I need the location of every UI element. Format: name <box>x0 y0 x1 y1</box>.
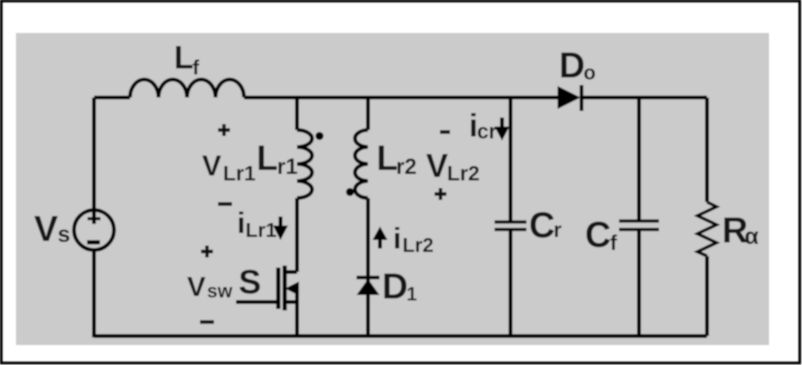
wire: Ro branch top <box>705 98 709 203</box>
wire: MOSFET source to bottom rail <box>295 287 299 337</box>
svg-text:f: f <box>610 232 618 255</box>
wire: left vertical above Vs <box>92 98 96 225</box>
minus mark VLr1 <box>218 202 232 206</box>
svg-text:S: S <box>239 264 262 302</box>
svg-text:L: L <box>377 139 398 178</box>
diode D1 cathode bar <box>357 276 380 280</box>
resistor Ra zigzag <box>698 202 717 256</box>
wire: Cr branch top <box>509 98 513 222</box>
svg-text:L: L <box>257 139 278 178</box>
svg-text:D: D <box>559 45 585 86</box>
MOSFET S channel bar <box>283 266 287 311</box>
svg-text:L: L <box>174 40 194 76</box>
diode Do cathode bar <box>580 85 584 111</box>
svg-text:C: C <box>585 214 611 255</box>
wire: Lr2 branch to D1 and bottom rail <box>366 198 370 336</box>
inductor Lr2 (secondary winding) <box>355 130 368 198</box>
svg-text:r2: r2 <box>396 154 417 179</box>
current arrow iLr2 (up) <box>378 238 382 249</box>
svg-text:i: i <box>237 207 245 240</box>
inductor Lf <box>130 80 244 98</box>
diode D1 triangle <box>357 279 380 295</box>
MOSFET S body arrow <box>285 282 299 296</box>
current arrow iLr1 (down) <box>279 217 283 228</box>
wire: left vertical below Vs <box>92 250 96 338</box>
wire: Lr1 branch to MOSFET drain <box>295 198 299 272</box>
svg-text:cr: cr <box>477 121 497 144</box>
wire: Lr1 branch top <box>295 98 299 131</box>
wire: bottom rail <box>94 334 707 338</box>
MOSFET S gate bar <box>276 268 280 310</box>
svg-text:r: r <box>554 219 562 242</box>
plus mark VLr2 <box>435 188 447 200</box>
svg-text:s: s <box>58 221 71 247</box>
wire: Cf branch bottom <box>637 231 641 337</box>
Vs plus mark <box>88 217 101 220</box>
wire: Cf branch top <box>637 98 641 221</box>
svg-text:Lr1: Lr1 <box>223 163 256 186</box>
transformer polarity dot Lr2 <box>346 188 354 196</box>
svg-text:f: f <box>193 58 200 80</box>
svg-text:i: i <box>393 223 401 256</box>
capacitor Cf plates <box>619 221 659 230</box>
wire: top rail from Do to right corner <box>580 96 707 100</box>
voltage source Vs circle <box>74 210 114 250</box>
MOSFET S drain lead <box>285 270 298 274</box>
svg-text:V: V <box>34 208 58 249</box>
capacitor Cr plates <box>495 222 527 230</box>
svg-text:C: C <box>529 205 555 246</box>
diode Do triangle <box>558 86 581 109</box>
Vs minus mark <box>87 240 100 244</box>
current arrow icr (down) <box>500 118 504 129</box>
minus mark VLr2 <box>440 130 450 134</box>
wire: Lr2 branch top <box>366 98 370 131</box>
svg-text:o: o <box>584 63 596 85</box>
wire: top rail from Lf to Do <box>244 96 558 100</box>
svg-text:α: α <box>745 223 759 249</box>
svg-text:D: D <box>382 266 408 307</box>
wire: top rail left of Lf <box>94 96 130 100</box>
svg-text:V: V <box>426 147 448 184</box>
svg-text:Lr2: Lr2 <box>403 235 434 257</box>
MOSFET S gate lead <box>236 300 277 304</box>
svg-text:r1: r1 <box>277 154 298 179</box>
svg-text:Lr1: Lr1 <box>246 220 277 242</box>
svg-text:1: 1 <box>407 285 418 306</box>
inductor Lr1 (primary winding) <box>297 130 312 198</box>
plus mark Vsw <box>201 246 213 258</box>
minus mark Vsw <box>200 320 214 324</box>
transformer polarity dot Lr1 <box>316 132 324 140</box>
MOSFET S source lead <box>285 300 298 304</box>
svg-text:V: V <box>187 271 206 302</box>
wire: Cr branch bottom <box>509 231 513 337</box>
svg-text:Lr2: Lr2 <box>447 163 480 186</box>
wire: Ro branch bottom <box>705 256 709 336</box>
svg-text:V: V <box>202 150 222 182</box>
plus mark VLr1 <box>218 124 230 136</box>
svg-text:sw: sw <box>207 282 233 303</box>
